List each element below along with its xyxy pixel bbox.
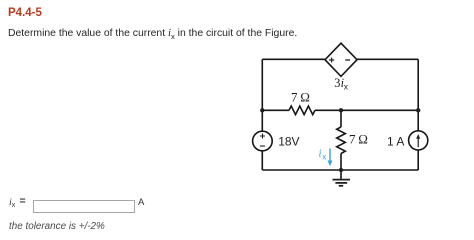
voltage source plus sign [260, 134, 265, 139]
title P4.4-5 [8, 7, 42, 19]
label 18V voltage source [278, 135, 299, 149]
resistor R2 7ohm vertical zigzag [337, 127, 346, 154]
voltage source minus sign [260, 145, 265, 147]
equals sign [20, 196, 26, 207]
label 7ohm horizontal resistor [291, 89, 310, 104]
wire vertical resistor bottom stub [340, 154, 342, 171]
node D junction dot bottom ground [339, 168, 343, 172]
problem statement [8, 27, 297, 39]
label 7ohm vertical resistor [349, 132, 368, 147]
wire right branch upper [417, 59, 419, 131]
current arrow ix cyan [328, 149, 333, 167]
wire top right segment [357, 58, 418, 60]
current source I1 1A circle [409, 131, 428, 150]
svg-text:7 Ω: 7 Ω [291, 89, 310, 104]
wire left branch lower [261, 151, 263, 170]
wire middle left segment [262, 109, 289, 111]
voltage source V1 18V circle [253, 131, 273, 151]
wire middle right segment [315, 109, 418, 111]
svg-text:x: x [322, 153, 326, 162]
node B junction dot center middle [339, 108, 343, 112]
unit label A [138, 197, 144, 208]
wire right branch lower [417, 150, 419, 170]
ground symbol bars [333, 180, 351, 186]
svg-text:18V: 18V [278, 135, 299, 149]
diamond polarity minus sign [345, 59, 350, 61]
node C junction dot right middle [416, 108, 420, 112]
current source I1 arrow [416, 134, 420, 147]
answer input box [33, 200, 136, 213]
node A junction dot left middle [260, 108, 264, 112]
ground stub [340, 170, 342, 179]
svg-text:x: x [344, 82, 349, 92]
resistor R1 7ohm horizontal zigzag [289, 106, 315, 115]
wire bottom segment [262, 169, 418, 171]
label 1A current source [387, 134, 404, 148]
wire top left segment [262, 58, 325, 60]
tolerance note [9, 221, 105, 232]
current label ix cyan [319, 148, 327, 162]
svg-text:1 A: 1 A [387, 134, 404, 148]
wire left branch upper [261, 59, 263, 131]
dependent source U1 diamond 3ix [325, 43, 357, 76]
diamond polarity plus sign [329, 58, 334, 63]
svg-text:i: i [319, 148, 322, 160]
wire vertical resistor top stub [340, 110, 342, 127]
label 3ix of dependent source [334, 76, 349, 92]
svg-text:7 Ω: 7 Ω [349, 132, 368, 147]
answer label ix = [9, 196, 15, 208]
svg-text:3: 3 [334, 76, 340, 90]
